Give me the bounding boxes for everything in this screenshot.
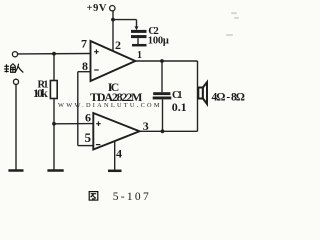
svg-text:6: 6 — [85, 110, 91, 124]
svg-text:7: 7 — [81, 37, 87, 51]
svg-text:3: 3 — [143, 119, 149, 133]
svg-text:5: 5 — [85, 130, 92, 145]
svg-text:0.1: 0.1 — [172, 100, 187, 114]
svg-text:+9V: +9V — [87, 3, 107, 14]
svg-text:8: 8 — [82, 59, 88, 73]
svg-text:4Ω - 8Ω: 4Ω - 8Ω — [212, 92, 246, 104]
svg-text:5-107: 5-107 — [113, 191, 149, 203]
svg-text:TDA2822M: TDA2822M — [90, 90, 143, 104]
svg-text:1: 1 — [137, 50, 142, 61]
svg-text:4: 4 — [116, 147, 122, 161]
svg-text:10k: 10k — [33, 86, 48, 100]
svg-text:2: 2 — [115, 38, 121, 52]
svg-text:100μ: 100μ — [148, 36, 169, 47]
